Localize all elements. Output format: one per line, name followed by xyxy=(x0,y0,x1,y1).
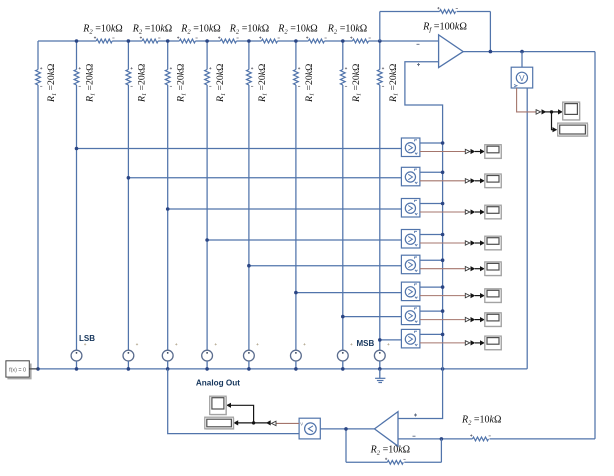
display block (top right) xyxy=(558,123,589,137)
wire common line below rail to U2 non-inverting input xyxy=(398,369,443,419)
svg-text:R1 =20kΩ: R1 =20kΩ xyxy=(215,64,227,103)
wire VM2 to common line xyxy=(420,171,443,173)
resistor R2 #4 (10k) on top rail xyxy=(218,37,239,43)
scope block bit 1 xyxy=(485,174,502,188)
label R1 = 20k-ohm column 2 (rotated) xyxy=(85,64,97,103)
wire U1 feedback top left segment xyxy=(380,11,440,13)
resistor R2 #5 (10k) on top rail xyxy=(259,37,280,43)
wire U1 output to VM out xyxy=(521,52,523,68)
label R1 = 20k-ohm column 8 (rotated) xyxy=(351,64,363,103)
wire right edge to R2 series resistor xyxy=(490,438,596,440)
junction top rail col7 xyxy=(294,39,298,43)
voltmeter VM1 bit 0 xyxy=(401,138,420,157)
signal arrowhead into scope 3 xyxy=(480,209,485,214)
display block (analog out) xyxy=(205,417,235,430)
junction bit 0 column tap xyxy=(75,147,79,151)
PS-Simulink converter arrow VM5 xyxy=(465,267,470,271)
svg-text:R2 =10kΩ: R2 =10kΩ xyxy=(229,24,269,36)
wire top rail segment R2 to col6 xyxy=(236,40,249,42)
wire top rail segment col5 to R2 xyxy=(207,40,220,42)
voltmeter VM3 bit 2 xyxy=(401,199,420,218)
resistor R1 (20k) column 8 xyxy=(340,67,347,86)
junction U1 output feedback node xyxy=(489,50,493,54)
wire top rail segment R2 to col5 xyxy=(195,40,207,42)
svg-text:R2 =10kΩ: R2 =10kΩ xyxy=(277,24,317,36)
signal VM8 measurement wire xyxy=(420,342,465,344)
resistor R1 (20k) column 2 xyxy=(74,67,81,86)
scope block bit 0 xyxy=(485,145,502,159)
scope block (analog out) xyxy=(210,396,227,415)
signal VM7 measurement wire xyxy=(420,319,465,321)
wire U1 feedback vertical from MSB node xyxy=(379,12,381,42)
svg-text:Analog Out: Analog Out xyxy=(196,379,240,388)
svg-text:R1 =20kΩ: R1 =20kΩ xyxy=(85,64,97,103)
signal arrowhead into scope 2 xyxy=(480,178,485,183)
resistor R1 (20k) column 5 xyxy=(205,67,212,86)
wire column 6 lower segment to bit source xyxy=(248,85,250,350)
signal arrow analog out xyxy=(266,420,271,425)
wire VM4 to common line xyxy=(420,234,443,236)
signal arrowhead into scope 8 xyxy=(480,340,485,345)
junction analog out split xyxy=(252,421,255,424)
signal VM out measurement wire xyxy=(517,88,537,112)
wire VM6 to common line xyxy=(420,286,443,288)
wire VM3 to common line xyxy=(420,203,443,205)
junction top rail col2 xyxy=(75,39,79,43)
junction U1 output voltmeter tap xyxy=(520,50,524,54)
wire bit 7 node to voltmeter VM8 input xyxy=(380,339,402,341)
wire column 2 upper segment xyxy=(76,41,78,70)
resistor R2 #3 (10k) on top rail xyxy=(177,37,198,43)
voltage source bit 1 (bit 1) xyxy=(123,343,138,369)
voltage sensor block (analog out) xyxy=(299,418,320,439)
junction ground rail col3 xyxy=(127,367,131,371)
junction ground rail col4 xyxy=(166,367,170,371)
svg-text:R1 =20kΩ: R1 =20kΩ xyxy=(136,64,148,103)
resistor R1 (20k) column 1 xyxy=(36,67,43,86)
wire VM5 to common line xyxy=(420,259,443,261)
resistor R1 (20k) column 6 xyxy=(247,67,254,86)
wire column 1 upper segment xyxy=(37,41,39,70)
junction ground rail col6 xyxy=(247,367,251,371)
junction ground rail col8 xyxy=(341,367,345,371)
svg-text:R1 =20kΩ: R1 =20kΩ xyxy=(176,64,188,103)
voltage source bit 2 (bit 2) xyxy=(162,343,177,369)
svg-text:R1 =20kΩ: R1 =20kΩ xyxy=(304,64,316,103)
label R1 = 20k-ohm column 4 (rotated) xyxy=(176,64,188,103)
signal arrowhead into scope 7 xyxy=(480,317,485,322)
voltmeter VM8 bit 7 xyxy=(401,329,420,348)
wire column 7 lower segment to bit source xyxy=(295,85,297,350)
wire VM8 to common line xyxy=(420,333,443,335)
svg-text:R2 =10kΩ: R2 =10kΩ xyxy=(132,24,172,36)
wire column 3 lower segment to bit source xyxy=(127,85,129,350)
junction ground rail col5 xyxy=(205,367,209,371)
wire U1 feedback top right segment xyxy=(457,11,491,13)
junction top rail col5 xyxy=(205,39,209,43)
wire sensor negative to ground rail xyxy=(168,369,299,434)
voltmeter VM5 bit 4 xyxy=(401,255,420,274)
voltage source bit 3 (bit 3) xyxy=(202,343,217,369)
svg-text:R2 =10kΩ: R2 =10kΩ xyxy=(180,24,220,36)
junction bit 7 column tap xyxy=(378,338,382,342)
solver configuration block f(x)=0 xyxy=(6,361,38,379)
svg-text:R2 =10kΩ: R2 =10kΩ xyxy=(370,445,410,457)
junction ground rail col7 xyxy=(294,367,298,371)
wire bit 4 node to voltmeter VM5 input xyxy=(249,265,402,267)
wire VM1 to common line xyxy=(420,142,443,144)
wire top rail segment col7 to R2 xyxy=(296,40,309,42)
wire column 9 lower segment to bit source xyxy=(379,85,381,350)
svg-text:R2 =10kΩ: R2 =10kΩ xyxy=(327,24,367,36)
signal arrow VM1 xyxy=(471,149,476,154)
resistor R2 #6 (10k) on top rail xyxy=(306,37,327,43)
signal arrow VM4 xyxy=(471,240,476,245)
scope block (top right) xyxy=(563,102,581,121)
wire U2 feedback up to output xyxy=(345,429,347,462)
signal VM1 measurement wire xyxy=(420,151,465,153)
junction common line VM1 xyxy=(441,141,445,145)
wire bit 6 node to voltmeter VM7 input xyxy=(343,316,402,318)
label R1 = 20k-ohm column 1 (rotated) xyxy=(46,64,58,103)
PS-Simulink converter arrow VM2 xyxy=(465,179,470,183)
wire U2 output to voltage sensor xyxy=(320,428,374,430)
svg-text:V: V xyxy=(300,421,303,426)
signal arrow into display (top right) xyxy=(553,127,558,132)
voltage source bit 5 (bit 5) xyxy=(291,343,306,369)
wire top rail segment col3 to R2 xyxy=(128,40,142,42)
scope block bit 4 xyxy=(485,262,502,276)
label R1 = 20k-ohm column 5 (rotated) xyxy=(215,64,227,103)
PS-Simulink converter arrow VM4 xyxy=(465,241,470,245)
junction common line VM6 xyxy=(441,285,445,289)
op-amp U2 xyxy=(375,412,418,447)
PS-Simulink converter arrow VM6 xyxy=(465,293,470,297)
voltage source bit 0 (LSB) xyxy=(71,343,86,369)
signal arrow VM8 xyxy=(471,340,476,345)
wire column 4 upper segment xyxy=(167,41,169,70)
label R1 = 20k-ohm column 6 (rotated) xyxy=(257,64,269,103)
resistor R2 #7 (10k) on top rail xyxy=(350,37,371,43)
signal VM5 measurement wire xyxy=(420,268,465,270)
junction top rail col4 xyxy=(166,39,170,43)
scope block bit 2 xyxy=(485,205,502,219)
wire column 8 upper segment xyxy=(342,41,344,70)
junction U2 inverting node xyxy=(440,437,444,441)
label R1 = 20k-ohm column 9 (rotated) xyxy=(388,64,400,103)
scope block bit 3 xyxy=(485,236,502,250)
signal VM4 measurement wire xyxy=(420,242,465,244)
svg-text:Rf =100kΩ: Rf =100kΩ xyxy=(422,22,467,34)
wire U1 non-inverting input to common line xyxy=(405,62,443,369)
svg-text:R2 =10kΩ: R2 =10kΩ xyxy=(82,24,122,36)
svg-text:R1 =20kΩ: R1 =20kΩ xyxy=(46,64,58,103)
signal sensor measurement wire (analog out) xyxy=(276,422,299,424)
signal arrow VM6 xyxy=(471,293,476,298)
junction ground rail col2 xyxy=(75,367,79,371)
svg-text:R1 =20kΩ: R1 =20kΩ xyxy=(351,64,363,103)
PS-Simulink converter arrow VM3 xyxy=(465,210,470,214)
voltmeter VM7 bit 6 xyxy=(401,306,420,325)
wire bit 3 node to voltmeter VM4 input xyxy=(207,239,401,241)
signal arrowhead into scope 5 xyxy=(480,266,485,271)
signal VM3 measurement wire xyxy=(420,211,465,213)
wire bit 1 node to voltmeter VM2 input xyxy=(128,177,401,179)
signal arrow into scope (top right) xyxy=(558,109,563,114)
scope block bit 6 xyxy=(485,313,502,327)
resistor R2 #1 (10k) on top rail xyxy=(94,37,115,43)
voltmeter VM6 bit 5 xyxy=(401,282,420,301)
signal arrow VM5 xyxy=(471,266,476,271)
svg-text:R1 =20kΩ: R1 =20kΩ xyxy=(388,64,400,103)
svg-text:R2 =10kΩ: R2 =10kΩ xyxy=(461,415,501,427)
scope block bit 5 xyxy=(485,289,502,303)
resistor R2 feedback (10k) bottom xyxy=(385,458,406,464)
svg-text:LSB: LSB xyxy=(79,334,95,343)
junction ground rail col1 xyxy=(36,367,40,371)
junction top rail col9 xyxy=(378,39,382,43)
resistor R1 (20k) column 4 xyxy=(165,67,172,86)
PS-Simulink converter arrow VM8 xyxy=(465,341,470,345)
junction top rail col3 xyxy=(127,39,131,43)
signal arrow VM2 xyxy=(471,178,476,183)
wire ground rail xyxy=(29,368,527,370)
junction bit 5 column tap xyxy=(294,291,298,295)
signal arrowhead into scope 6 xyxy=(480,293,485,298)
wire U2 feedback bottom right segment xyxy=(404,461,441,463)
junction bit 2 column tap xyxy=(166,207,170,211)
wire U1 output to right edge xyxy=(463,51,595,53)
signal arrow into top-right junction xyxy=(542,109,547,114)
signal wire to display (top right) xyxy=(552,112,554,130)
PS-Simulink converter arrow (analog out) xyxy=(272,421,277,425)
junction bit 1 column tap xyxy=(127,176,131,180)
svg-text:V: V xyxy=(519,74,525,83)
wire column 1 lower segment to ground rail xyxy=(37,85,39,369)
junction common line VM8 xyxy=(441,333,445,337)
voltage source bit 7 (MSB) xyxy=(374,343,389,369)
label R1 = 20k-ohm column 7 (rotated) xyxy=(304,64,316,103)
wire VM7 to common line xyxy=(420,310,443,312)
svg-text:R1 =20kΩ: R1 =20kΩ xyxy=(257,64,269,103)
junction bit 4 column tap xyxy=(247,264,251,268)
junction ground rail common line xyxy=(441,367,445,371)
wire top rail segment R2 to col7 xyxy=(278,40,296,42)
label R1 = 20k-ohm column 3 (rotated) xyxy=(136,64,148,103)
PS-Simulink converter arrow VM1 xyxy=(465,149,470,153)
wire column 4 lower segment to bit source xyxy=(167,85,169,350)
signal arrowhead into scope 4 xyxy=(480,240,485,245)
wire top rail segment col8 to R2 xyxy=(343,40,353,42)
wire top rail segment R2 to col8 xyxy=(324,40,342,42)
PS-Simulink converter arrow VM7 xyxy=(465,317,470,321)
wire top rail segment R2 to col4 xyxy=(158,40,168,42)
resistor Rf (100k) xyxy=(437,7,458,13)
junction U2 output feedback node xyxy=(344,427,348,431)
svg-text:MSB: MSB xyxy=(357,339,375,348)
signal arrowhead into scope 1 xyxy=(480,149,485,154)
svg-text:f(x) = 0: f(x) = 0 xyxy=(9,367,26,373)
wire column 5 lower segment to bit source xyxy=(206,85,208,350)
signal arrow VM7 xyxy=(471,317,476,322)
junction top rail col6 xyxy=(247,39,251,43)
wire top rail segment col6 to R2 xyxy=(249,40,262,42)
resistor R1 (20k) column 9 xyxy=(377,67,384,86)
junction common line VM4 xyxy=(441,233,445,237)
junction common line VM2 xyxy=(441,171,445,175)
wire U2 feedback down from inverting node xyxy=(440,439,442,462)
signal arrow VM3 xyxy=(471,209,476,214)
voltage source bit 4 (bit 4) xyxy=(244,343,259,369)
voltmeter VM2 bit 1 xyxy=(401,167,420,186)
voltmeter VM4 bit 3 xyxy=(401,230,420,249)
signal VM6 measurement wire xyxy=(420,295,465,297)
wire U1 feedback down to output xyxy=(489,12,491,52)
voltage source bit 6 (bit 6) xyxy=(337,343,352,369)
ground symbol xyxy=(375,369,385,383)
signal VM2 measurement wire xyxy=(420,180,465,182)
wire bit 5 node to voltmeter VM6 input xyxy=(296,292,402,294)
wire U2 feedback bottom left segment xyxy=(346,461,387,463)
junction top rail col8 xyxy=(341,39,345,43)
resistor R1 (20k) column 7 xyxy=(294,67,301,86)
wire column 3 upper segment xyxy=(127,41,129,70)
junction ground rail col9 xyxy=(378,367,382,371)
junction common line VM3 xyxy=(441,202,445,206)
wire column 8 lower segment to bit source xyxy=(342,85,344,350)
wire top rail MSB node to op-amp U1 inverting input xyxy=(380,40,439,42)
wire column 6 upper segment xyxy=(248,41,250,70)
wire column 9 upper segment xyxy=(379,41,381,70)
wire column 7 upper segment xyxy=(295,41,297,70)
scope block bit 7 xyxy=(485,336,502,350)
wire top rail segment col2 to R2 xyxy=(77,40,97,42)
wire bit 2 node to voltmeter VM3 input xyxy=(168,208,402,210)
junction common line VM5 xyxy=(441,258,445,262)
wire right edge vertical xyxy=(594,52,596,439)
wire top rail segment col4 to R2 xyxy=(168,40,180,42)
wire column 5 upper segment xyxy=(206,41,208,70)
resistor R2 series (10k) bottom right xyxy=(470,434,491,440)
junction signal split (top right) xyxy=(550,110,553,113)
wire column 2 lower segment to bit source xyxy=(76,85,78,350)
signal arrowhead into display (analog out) xyxy=(233,420,238,425)
signal wire to scope (analog out) xyxy=(231,405,254,423)
junction bit 6 column tap xyxy=(341,315,345,319)
PS-Simulink converter arrow (top right) xyxy=(536,110,541,114)
voltmeter VM out (top right) xyxy=(511,67,533,88)
wire top rail segment R2 to col9 xyxy=(369,40,380,42)
op-amp U1 xyxy=(417,35,464,68)
signal arrowhead into scope (analog out) xyxy=(226,403,231,408)
junction common line VM7 xyxy=(441,309,445,313)
wire top rail segment col1-col2 xyxy=(38,40,77,42)
resistor R1 (20k) column 3 xyxy=(126,67,133,86)
junction bit 3 column tap xyxy=(205,238,209,242)
wire VM out negative to ground rail xyxy=(526,88,528,369)
wire R2 series to U2 inverting input xyxy=(398,438,473,440)
resistor R2 #2 (10k) on top rail xyxy=(140,37,161,43)
wire bit 0 node to voltmeter VM1 input xyxy=(77,148,402,150)
wire top rail segment R2 to col3 xyxy=(112,40,128,42)
